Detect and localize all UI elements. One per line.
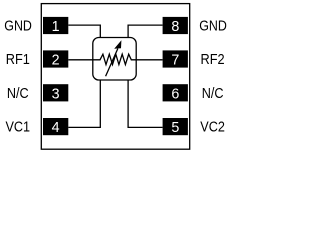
svg-text:N/C: N/C [7,86,29,102]
svg-text:3: 3 [52,86,60,102]
svg-text:7: 7 [171,53,179,69]
svg-text:4: 4 [52,120,60,136]
svg-text:GND: GND [4,19,32,35]
svg-text:GND: GND [199,19,227,35]
svg-text:N/C: N/C [202,86,224,102]
svg-text:VC2: VC2 [200,120,225,136]
svg-text:5: 5 [171,120,179,136]
svg-text:6: 6 [171,86,179,102]
svg-text:2: 2 [52,53,60,69]
svg-text:1: 1 [52,19,60,35]
svg-text:RF2: RF2 [201,52,225,68]
svg-text:VC1: VC1 [5,120,30,136]
svg-text:RF1: RF1 [6,52,30,68]
svg-text:8: 8 [171,19,179,35]
